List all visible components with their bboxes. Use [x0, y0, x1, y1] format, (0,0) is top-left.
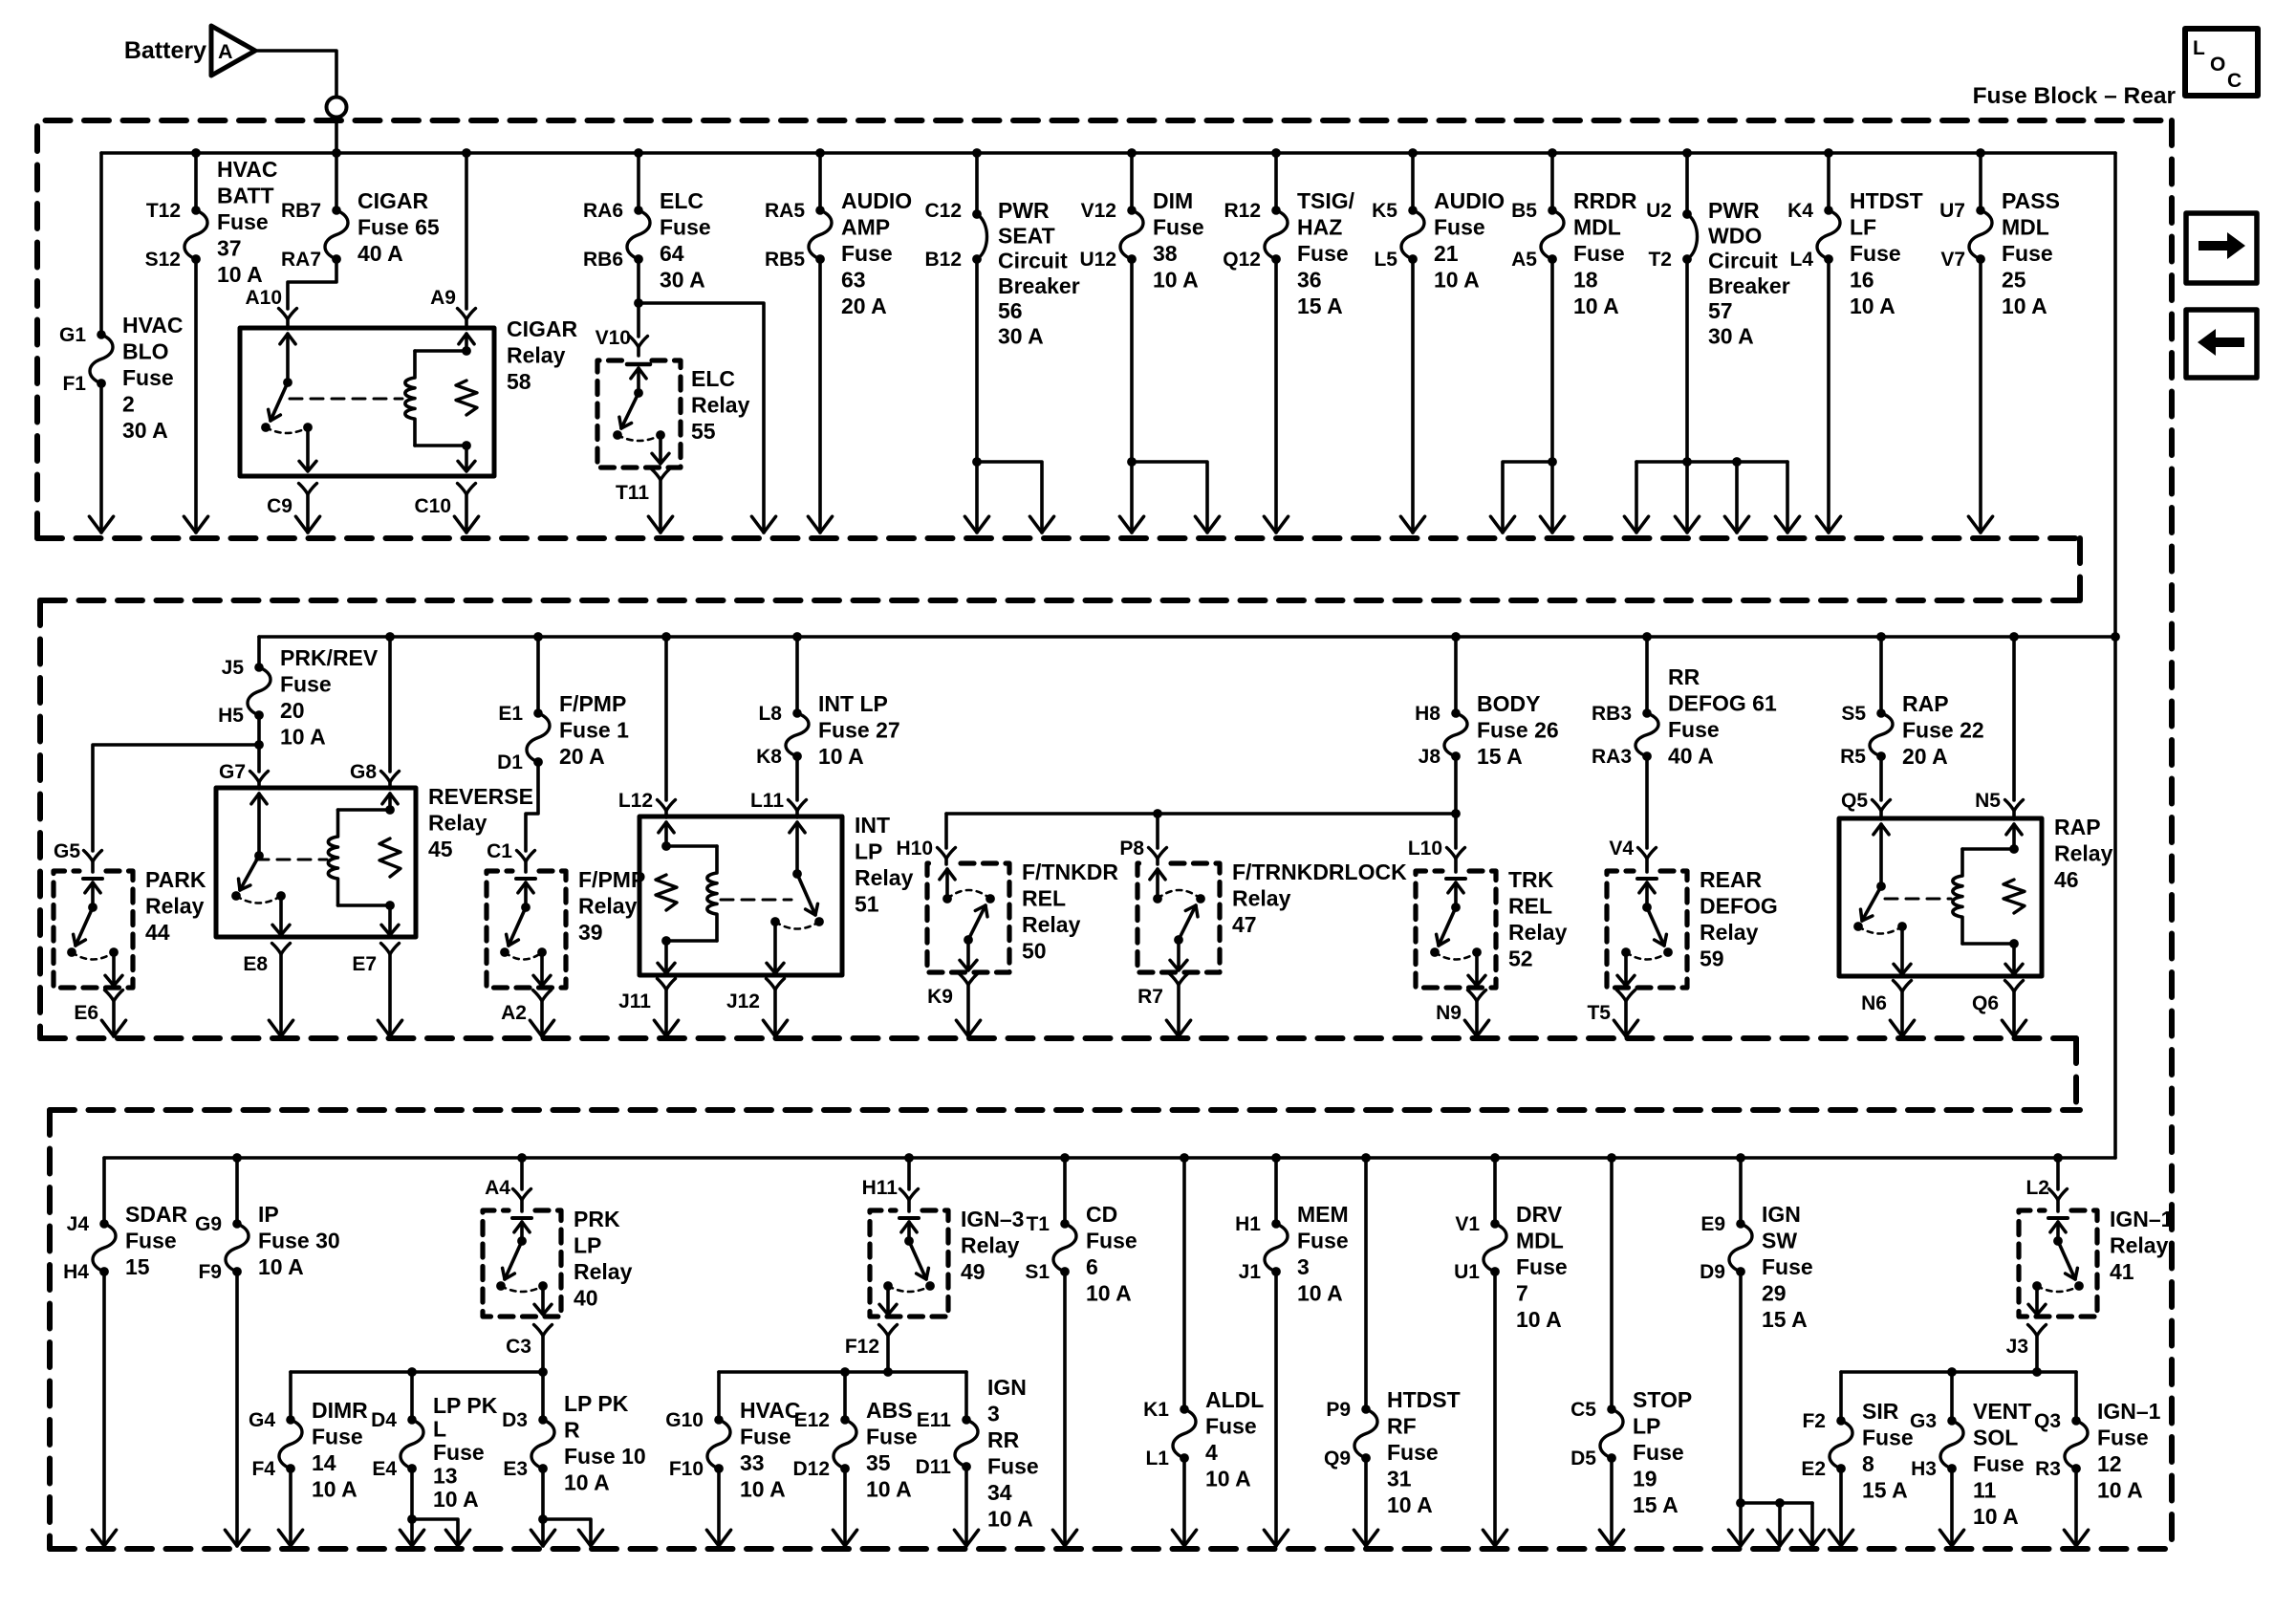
wire bus to STOP LP fuse	[1610, 1158, 1614, 1409]
svg-text:DIMR: DIMR	[312, 1398, 368, 1423]
svg-text:E6: E6	[74, 1002, 98, 1024]
svg-text:F/TRNKDRLOCK: F/TRNKDRLOCK	[1232, 860, 1407, 884]
svg-text:T12: T12	[146, 200, 181, 222]
REAR DEFOG relay pin line	[1645, 882, 1649, 907]
svg-text:S12: S12	[145, 249, 181, 271]
IGN-3 relay contact left	[883, 1281, 893, 1291]
PRK LP relay contact left	[496, 1281, 506, 1291]
exit arrow J12	[763, 1020, 787, 1036]
exit arrow N6	[1890, 1020, 1914, 1036]
wire bus to RRDR MDL fuse	[1550, 153, 1554, 210]
junction bus PWR WDO	[1682, 148, 1692, 158]
svg-text:Fuse: Fuse	[433, 1440, 485, 1465]
label STOP LP Fuse 19 15 A	[1633, 1387, 1692, 1517]
cigar relay switch contact right	[303, 423, 313, 432]
wire bus to BODY fuse	[1454, 637, 1458, 713]
svg-text:Fuse 30: Fuse 30	[258, 1229, 340, 1253]
svg-text:T2: T2	[1648, 249, 1672, 271]
svg-text:10 A: 10 A	[987, 1507, 1033, 1532]
label PRK LP Relay 40	[574, 1207, 633, 1311]
IGN-3 relay pin line	[907, 1222, 911, 1241]
label TRK REL Relay 52	[1508, 867, 1568, 971]
svg-text:IGN–1: IGN–1	[2097, 1399, 2161, 1424]
label F/PMP Fuse 1 20 A	[559, 691, 629, 769]
connector H11	[900, 1189, 919, 1201]
svg-text:20 A: 20 A	[1902, 744, 1948, 769]
wire G8 to REVERSE relay	[388, 782, 392, 789]
svg-text:10 A: 10 A	[258, 1254, 304, 1279]
INT LP relay coil output arrow	[658, 963, 675, 973]
svg-text:Relay: Relay	[574, 1259, 633, 1284]
circuit breaker 56 PWR SEAT (C12-B12)	[972, 209, 986, 264]
connector E6	[105, 991, 123, 1002]
svg-text:10 A: 10 A	[2002, 294, 2047, 318]
junction bus HTDST RF	[1361, 1153, 1371, 1163]
junction bus L12	[661, 632, 671, 642]
svg-text:40: 40	[574, 1286, 598, 1311]
svg-text:10 A: 10 A	[2097, 1478, 2143, 1503]
right-arrow reference box	[2186, 213, 2257, 283]
svg-text:H5: H5	[218, 705, 244, 727]
connector Q6	[2005, 981, 2024, 992]
svg-text:MDL: MDL	[1516, 1229, 1564, 1253]
svg-text:H3: H3	[1911, 1458, 1937, 1480]
ELC relay switch common	[634, 388, 643, 398]
label HTDST LF Fuse 16 10 A	[1850, 188, 1923, 318]
connector A4	[513, 1189, 531, 1201]
PRK LP relay switch blade	[503, 1241, 522, 1279]
svg-text:Fuse: Fuse	[866, 1425, 918, 1449]
junction bus ALDL	[1180, 1153, 1189, 1163]
PRK LP relay pin arrow	[514, 1222, 530, 1232]
svg-text:15 A: 15 A	[1862, 1478, 1908, 1503]
svg-text:10 A: 10 A	[1973, 1504, 2019, 1529]
PRK LP relay fixed contact bar	[512, 1216, 531, 1220]
svg-text:Fuse: Fuse	[280, 672, 332, 697]
connector N6	[1894, 981, 1912, 992]
cigar relay mechanical link	[290, 398, 402, 401]
relay 47 travel arc	[1158, 890, 1201, 899]
svg-text:Relay: Relay	[855, 865, 914, 890]
svg-text:D11: D11	[916, 1456, 952, 1478]
exit arrow E6	[101, 1020, 125, 1036]
wire IGN SW branch b	[1778, 1503, 1782, 1546]
wire bus to PRK/REV fuse	[257, 637, 261, 667]
TRK REL relay pin line	[1454, 882, 1458, 907]
svg-text:10 A: 10 A	[1086, 1281, 1132, 1306]
cigar relay switch travel arc	[266, 427, 308, 433]
relay 47 output	[1177, 940, 1180, 969]
label INT LP Fuse 27 10 A	[818, 691, 900, 769]
svg-text:PASS: PASS	[2002, 188, 2060, 213]
exit arrow HVAC	[706, 1530, 730, 1546]
wire A10 to cigar relay	[286, 319, 290, 329]
F/PMP relay output	[540, 952, 544, 984]
junction IGN SW manifold b	[1775, 1498, 1785, 1508]
ELC relay switch travel arc	[617, 435, 661, 441]
TRK REL relay output arrow	[1468, 975, 1485, 986]
junction RRDR MDL branch	[1548, 457, 1557, 467]
svg-text:10 A: 10 A	[1387, 1492, 1433, 1517]
junction C3 manifold at LP PK L	[407, 1367, 417, 1377]
svg-text:F2: F2	[1802, 1410, 1826, 1432]
svg-text:PWR: PWR	[998, 198, 1050, 223]
svg-text:ELC: ELC	[660, 188, 704, 213]
svg-text:CD: CD	[1086, 1202, 1117, 1227]
svg-text:T5: T5	[1587, 1002, 1611, 1024]
svg-text:57: 57	[1708, 298, 1733, 323]
label INT LP Relay 51	[855, 813, 914, 917]
wire HVAC BATT fuse to exit	[194, 259, 198, 533]
svg-text:REL: REL	[1508, 894, 1552, 919]
svg-text:TRK: TRK	[1508, 867, 1554, 892]
svg-text:44: 44	[145, 920, 170, 945]
F/PMP relay pin arrow	[518, 882, 533, 893]
junction LP PK L branch	[407, 1514, 417, 1524]
svg-text:E11: E11	[917, 1409, 952, 1431]
wire manifold to DIMR fuse	[289, 1372, 292, 1420]
junction bus STOP LP	[1607, 1153, 1616, 1163]
REVERSE relay switch travel arc	[236, 896, 281, 903]
svg-text:F12: F12	[845, 1336, 879, 1358]
svg-text:SDAR: SDAR	[125, 1202, 188, 1227]
REAR DEFOG relay switch blade	[1647, 907, 1666, 946]
svg-text:INT LP: INT LP	[818, 691, 888, 716]
svg-text:RF: RF	[1387, 1414, 1417, 1439]
RAP relay coil bottom node	[2009, 939, 2019, 948]
svg-text:25: 25	[2002, 268, 2026, 293]
connector N5	[2005, 800, 2024, 812]
relay K44 PARK Relay box	[54, 871, 133, 988]
REAR DEFOG relay contact left	[1621, 947, 1631, 957]
PRK LP relay contact right	[538, 1281, 548, 1291]
svg-text:Relay: Relay	[1232, 886, 1291, 911]
fuse block section 1 dashed border (left+top)	[37, 120, 2172, 538]
connector Q5	[1873, 800, 1891, 812]
svg-text:Fuse: Fuse	[312, 1425, 363, 1449]
F/PMP relay switch travel arc	[505, 952, 542, 960]
wire V4 to REAR DEFOG relay	[1645, 859, 1649, 872]
wire IGN SW manifold	[1741, 1501, 1812, 1505]
REAR DEFOG relay pin arrow	[1639, 882, 1655, 893]
relay K41 IGN-1 Relay box	[2019, 1210, 2097, 1317]
REVERSE relay coil output arrow	[381, 925, 399, 935]
fuse block section 1 dashed border (right edge shared)	[2169, 120, 2175, 1549]
wire TSIG HAZ to exit	[1274, 259, 1278, 533]
wire C9 to exit	[306, 494, 310, 533]
svg-text:L1: L1	[1145, 1448, 1169, 1469]
wire bus to PWR SEAT breaker	[975, 153, 979, 210]
REVERSE relay switch pin line	[257, 794, 261, 856]
junction bus HVAC BATT	[191, 148, 201, 158]
svg-text:19: 19	[1633, 1467, 1657, 1491]
connector J11	[658, 979, 676, 991]
wire bus to A4	[520, 1158, 524, 1189]
svg-text:52: 52	[1508, 947, 1533, 971]
connector L10	[1447, 848, 1465, 860]
svg-text:Fuse: Fuse	[1297, 1229, 1349, 1253]
label PWR SEAT Circuit Breaker 56 30 A	[998, 198, 1080, 349]
relay 47 output arrow	[1170, 960, 1187, 970]
svg-text:AUDIO: AUDIO	[841, 188, 912, 213]
relay 47 pin arrow	[1150, 869, 1165, 880]
svg-text:K4: K4	[1787, 200, 1813, 222]
svg-text:C12: C12	[924, 200, 962, 222]
wire L2 to IGN-1 relay	[2056, 1200, 2060, 1211]
svg-text:Q12: Q12	[1223, 249, 1261, 271]
wire PWR SEAT to exit	[975, 259, 979, 533]
svg-text:30 A: 30 A	[1708, 324, 1754, 349]
relay 47 right contact	[1196, 894, 1205, 903]
IGN-1 relay pin line	[2056, 1222, 2060, 1241]
wire H10 to relay 50	[944, 859, 948, 864]
connector T5	[1617, 991, 1635, 1002]
svg-text:RA7: RA7	[281, 249, 321, 271]
cigar relay coil bottom node	[462, 441, 471, 450]
svg-text:A: A	[218, 40, 233, 63]
REVERSE relay coil top link	[338, 808, 391, 812]
svg-text:WDO: WDO	[1708, 223, 1762, 248]
wire LP PK L branch	[412, 1519, 458, 1546]
svg-text:58: 58	[507, 369, 531, 394]
svg-text:3: 3	[987, 1402, 1000, 1426]
svg-text:RA3: RA3	[1592, 746, 1632, 768]
wire G7 to REVERSE relay	[257, 782, 261, 789]
F/PMP relay output arrow	[533, 975, 551, 986]
label IGN-1 Relay 41	[2110, 1207, 2174, 1284]
wire manifold to LP PK L fuse	[410, 1372, 414, 1420]
exit arrow HTDST RF	[1354, 1530, 1377, 1546]
label ALDL Fuse 4 10 A	[1205, 1387, 1264, 1491]
wire manifold to H10	[944, 814, 948, 848]
svg-text:10 A: 10 A	[1573, 294, 1619, 318]
exit arrow K9	[956, 1020, 980, 1036]
wire bus to TSIG HAZ fuse	[1274, 153, 1278, 210]
wire R7 to exit	[1177, 985, 1180, 1036]
fuse 65 CIGAR (RB7-RA7)	[325, 206, 348, 264]
wire bus to INT LP fuse	[795, 637, 799, 713]
IGN-1 relay fixed contact bar	[2048, 1216, 2068, 1220]
fuse block section 2 dashed border (left)	[37, 600, 43, 1038]
wire bus to H11	[907, 1158, 911, 1189]
INT LP relay switch blade	[797, 874, 818, 915]
svg-text:Fuse: Fuse	[740, 1425, 791, 1449]
fuse block section 3 dashed border (left)	[47, 1110, 53, 1549]
left arrow icon	[2198, 329, 2244, 356]
exit arrow R7	[1166, 1020, 1190, 1036]
wire Q5 to RAP relay	[1879, 811, 1883, 819]
RAP relay contact left	[1853, 922, 1863, 931]
ELC relay pin arrow	[631, 368, 646, 379]
svg-text:B5: B5	[1511, 200, 1537, 222]
svg-text:U7: U7	[1939, 200, 1965, 222]
svg-text:35: 35	[866, 1450, 891, 1475]
svg-text:A5: A5	[1511, 249, 1537, 271]
REAR DEFOG relay switch travel arc	[1626, 952, 1668, 960]
svg-text:Q9: Q9	[1324, 1448, 1351, 1469]
svg-text:10 A: 10 A	[1434, 268, 1480, 293]
wire LP PK R branch	[543, 1519, 591, 1546]
svg-text:Q5: Q5	[1841, 790, 1868, 812]
fuse 14 DIMR (G4-F4)	[279, 1415, 302, 1473]
svg-text:Q3: Q3	[2034, 1410, 2061, 1432]
svg-text:Breaker: Breaker	[1708, 273, 1790, 298]
wire bus to ALDL fuse	[1182, 1158, 1186, 1409]
relay K52 TRK REL Relay box	[1416, 871, 1496, 988]
fuse 8 SIR (F2-E2)	[1830, 1416, 1852, 1473]
fuse 22 RAP (S5-R5)	[1870, 708, 1893, 761]
IGN-1 relay contact left	[2032, 1281, 2042, 1291]
F/PMP relay pin line	[524, 882, 528, 907]
svg-text:P9: P9	[1326, 1399, 1351, 1421]
relay 47 pin line	[1156, 869, 1159, 899]
fuse 16 HTDST LF (K4-L4)	[1817, 206, 1840, 264]
wire bus to CIGAR fuse	[335, 153, 338, 210]
svg-text:G4: G4	[249, 1409, 275, 1431]
wire PWR WDO branch a	[1635, 462, 1638, 533]
wire bus to RAP fuse	[1879, 637, 1883, 713]
wire to PARK relay	[93, 745, 259, 851]
svg-text:Fuse 10: Fuse 10	[564, 1444, 646, 1469]
RAP relay pin arrow Q5	[1874, 824, 1889, 835]
svg-text:Q6: Q6	[1972, 992, 1999, 1014]
label DIMR Fuse 14 10 A	[312, 1398, 368, 1502]
exit arrow IGN 3 RR	[954, 1530, 978, 1546]
svg-text:H8: H8	[1415, 703, 1440, 725]
wire bus to CD fuse	[1063, 1158, 1067, 1224]
svg-text:Fuse: Fuse	[1762, 1254, 1813, 1279]
wire PRK/REV fuse to G7	[257, 715, 261, 772]
junction bus RAP	[1876, 632, 1886, 642]
svg-text:L8: L8	[758, 703, 782, 725]
svg-text:RR: RR	[1668, 664, 1700, 689]
junction bus INT LP	[792, 632, 802, 642]
connector E7	[381, 944, 400, 955]
wire bus to MEM fuse	[1274, 1158, 1278, 1224]
exit arrow IGN SW a	[1728, 1530, 1752, 1546]
svg-text:MEM: MEM	[1297, 1202, 1349, 1227]
connector N9	[1468, 991, 1486, 1002]
IGN-1 relay output arrow	[2028, 1304, 2046, 1315]
exit arrow CD	[1052, 1530, 1076, 1546]
svg-text:L4: L4	[1789, 249, 1813, 271]
cigar relay coil output	[465, 446, 468, 469]
exit arrow ALDL	[1172, 1530, 1196, 1546]
junction IGN SW manifold a	[1736, 1498, 1745, 1508]
svg-text:D4: D4	[371, 1409, 397, 1431]
fuse 4 ALDL (K1-L1)	[1173, 1404, 1196, 1463]
label RR DEFOG 61 Fuse 40 A	[1668, 664, 1777, 769]
svg-text:G1: G1	[59, 324, 86, 346]
svg-text:D3: D3	[502, 1409, 528, 1431]
RAP relay coil top node	[2009, 844, 2019, 854]
relay 50 output arrow	[960, 960, 977, 970]
svg-text:RRDR: RRDR	[1573, 188, 1637, 213]
left-arrow reference box	[2186, 310, 2257, 378]
svg-text:E12: E12	[794, 1409, 830, 1431]
svg-text:Relay: Relay	[691, 393, 750, 418]
svg-text:55: 55	[691, 419, 716, 444]
svg-text:46: 46	[2054, 867, 2079, 892]
RAP relay coil output	[2012, 944, 2016, 972]
svg-text:Fuse 27: Fuse 27	[818, 718, 900, 743]
label HVAC Fuse 33 10 A	[740, 1398, 800, 1502]
svg-text:21: 21	[1434, 241, 1459, 266]
REVERSE relay coil pin line	[388, 794, 392, 810]
svg-text:10 A: 10 A	[1153, 268, 1199, 293]
wire C3 to manifold	[541, 1336, 545, 1372]
INT LP relay output	[773, 922, 777, 971]
exit arrow C10	[454, 516, 478, 533]
svg-text:V1: V1	[1455, 1213, 1480, 1235]
svg-text:41: 41	[2110, 1259, 2134, 1284]
PRK LP relay output arrow	[534, 1304, 552, 1315]
fuse block section 2 dashed border (top)	[40, 598, 2080, 603]
svg-text:Fuse: Fuse	[1205, 1414, 1257, 1439]
svg-text:LP: LP	[574, 1233, 601, 1258]
exit arrow RRDR MDL branch	[1490, 516, 1514, 533]
wire manifold to P8	[1156, 814, 1159, 848]
svg-text:HTDST: HTDST	[1850, 188, 1923, 213]
svg-text:IGN: IGN	[1762, 1202, 1801, 1227]
svg-text:SIR: SIR	[1862, 1399, 1899, 1424]
label ABS Fuse 35 10 A	[866, 1398, 918, 1502]
connector A10	[279, 309, 297, 320]
label PARK Relay 44	[145, 867, 206, 945]
wire IGN SW down	[1739, 1272, 1743, 1546]
junction manifold P8	[1153, 809, 1162, 818]
connector E8	[272, 944, 291, 955]
svg-text:Relay: Relay	[1508, 920, 1568, 945]
RAP relay coil pin line	[2012, 824, 2016, 849]
cigar relay switch contact left	[261, 423, 271, 432]
connector C3	[534, 1325, 552, 1337]
svg-text:J5: J5	[222, 657, 245, 679]
exit arrow DRV MDL	[1483, 1530, 1506, 1546]
junction bus A4	[517, 1153, 527, 1163]
svg-text:15 A: 15 A	[1633, 1492, 1679, 1517]
relay 50 switch common	[964, 935, 973, 945]
svg-text:10 A: 10 A	[564, 1470, 610, 1495]
svg-text:E7: E7	[352, 953, 377, 975]
wire ELC fuse to V10	[637, 259, 640, 337]
wire AUDIO 21 to exit	[1411, 259, 1415, 533]
relay 50 pin line	[945, 869, 949, 899]
wire RRDR MDL to exit	[1550, 259, 1554, 533]
svg-text:Fuse 26: Fuse 26	[1477, 718, 1559, 743]
PARK relay pin arrow	[85, 882, 100, 893]
junction C3 manifold at C3	[538, 1367, 548, 1377]
wire J12 to exit	[773, 990, 777, 1036]
wire C10 to exit	[465, 494, 468, 533]
svg-text:E2: E2	[1801, 1458, 1826, 1480]
svg-text:C3: C3	[506, 1336, 531, 1358]
svg-text:T1: T1	[1026, 1213, 1050, 1235]
svg-text:HVAC: HVAC	[122, 313, 183, 337]
svg-text:C9: C9	[267, 495, 292, 517]
svg-text:V4: V4	[1609, 838, 1634, 860]
svg-text:L12: L12	[618, 790, 653, 812]
cigar relay resistor	[456, 381, 477, 415]
wire HTDST RF to exit	[1364, 1458, 1368, 1546]
wire ELC branch right	[639, 303, 764, 533]
wire L10 to TRK REL relay	[1454, 859, 1458, 872]
wire F12 manifold	[719, 1370, 966, 1374]
svg-text:RAP: RAP	[2054, 815, 2101, 839]
svg-text:30 A: 30 A	[660, 268, 705, 293]
svg-text:20 A: 20 A	[841, 294, 887, 318]
svg-text:J3: J3	[2006, 1336, 2028, 1358]
